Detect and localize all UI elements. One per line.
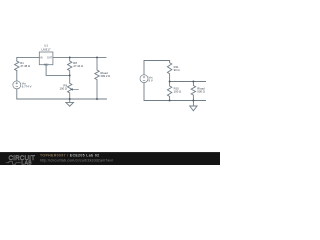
svg-text:100 Ω: 100 Ω [59, 86, 67, 90]
wire bottom rail left [17, 98, 107, 100]
wire OUT rail [53, 56, 106, 58]
footer text [40, 154, 113, 163]
svg-text:TOPHER0097 / ECE205 Lab 02: TOPHER0097 / ECE205 Lab 02 [40, 154, 99, 158]
wire ADJ [46, 65, 70, 76]
resistor R1 [15, 61, 19, 71]
resistor R9 rheostat [67, 75, 78, 99]
ground right [190, 101, 197, 111]
node OUT junction [69, 56, 71, 58]
wire top-left rail [17, 57, 40, 61]
node Rload-left top junction [96, 56, 98, 58]
label R11 [174, 65, 180, 72]
svg-text:LM317: LM317 [41, 47, 51, 51]
resistor R11 [167, 61, 171, 82]
node mid junction [169, 81, 171, 83]
node ground junction [69, 98, 71, 100]
svg-text:9 V: 9 V [149, 78, 153, 82]
svg-text:IN: IN [40, 57, 43, 59]
node Rload-right top junction [192, 81, 194, 83]
wire right top rail [144, 61, 170, 75]
resistor Rload left [95, 57, 99, 99]
wire mid rail [170, 81, 206, 83]
wire Vin to bottom rail [16, 89, 18, 99]
node Rload-left bottom junction [96, 98, 98, 100]
svg-text:500 Ω: 500 Ω [197, 90, 205, 94]
resistor Rload right [191, 82, 195, 101]
node ADJ junction [69, 74, 71, 76]
voltage source Vin right [140, 75, 148, 83]
ground left [66, 99, 74, 106]
logo CircuitLab [6, 155, 35, 166]
label R9 [59, 83, 67, 90]
svg-text:47.48 Ω: 47.48 Ω [20, 64, 30, 68]
svg-text:LAB: LAB [21, 160, 32, 165]
svg-text:499.2 Ω: 499.2 Ω [100, 74, 110, 78]
svg-text:90 Ω: 90 Ω [174, 68, 180, 72]
node R10 bottom junction [169, 100, 171, 102]
svg-text:http://circuitlab.com/circuit/: http://circuitlab.com/circuit/2k2dd2am7w… [40, 158, 113, 162]
resistor R8 [67, 57, 71, 75]
svg-text:6.774 V: 6.774 V [22, 85, 32, 89]
pin labels U1 [40, 57, 52, 66]
svg-text:100 Ω: 100 Ω [174, 90, 182, 94]
svg-text:47.44 Ω: 47.44 Ω [73, 64, 83, 68]
resistor R10 [167, 82, 171, 101]
wire right bottom rail [144, 83, 206, 101]
label Vin right [149, 75, 153, 82]
voltage source Vin left [13, 81, 21, 89]
label Rload right [197, 87, 205, 94]
label Vin left [22, 82, 32, 89]
label U1 [41, 43, 51, 51]
wire R1 to Vin [16, 71, 18, 81]
footer bar [0, 152, 220, 165]
node right ground junction [192, 100, 194, 102]
label Rload left [100, 71, 110, 78]
label R1 [20, 61, 30, 68]
svg-text:OUT: OUT [47, 57, 52, 59]
label R8 [73, 61, 83, 68]
label R10 [174, 87, 182, 94]
svg-text:ADJ: ADJ [44, 64, 48, 67]
regulator U1 LM317 [39, 52, 53, 65]
